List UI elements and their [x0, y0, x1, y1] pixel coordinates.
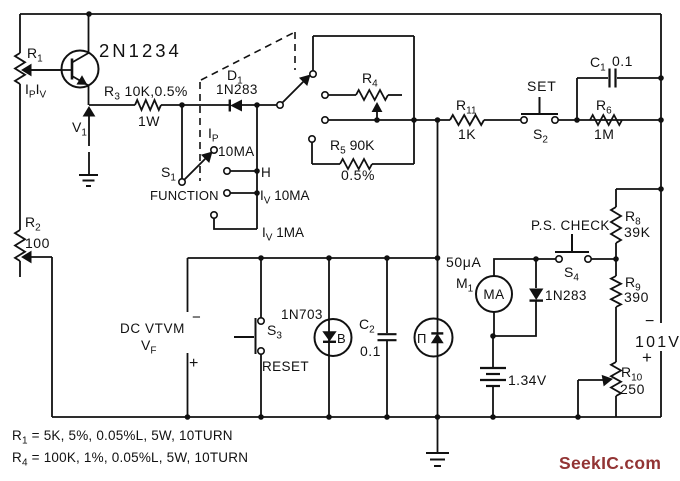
wire M1 top — [494, 259, 536, 276]
switch S3 blade — [234, 318, 256, 354]
svg-text:1N703: 1N703 — [281, 307, 323, 322]
wire C1 up — [576, 78, 578, 120]
junction R8 frame — [658, 186, 664, 192]
label Iv 10MA — [260, 188, 309, 207]
label R10 — [621, 364, 643, 384]
svg-text:+: + — [189, 355, 199, 372]
label Ip — [208, 125, 219, 145]
svg-text:IPIV: IPIV — [25, 81, 46, 101]
label R4 spec — [12, 450, 248, 469]
wire M1 bottom — [493, 312, 495, 336]
svg-text:IP: IP — [208, 125, 219, 145]
label R4 — [362, 70, 378, 90]
resistor R11 — [450, 115, 484, 125]
svg-text:C2: C2 — [359, 316, 375, 336]
wire R5 lead — [312, 163, 340, 165]
wire R2 wiper drop — [51, 257, 53, 417]
label R1 spec — [12, 428, 233, 447]
label H — [261, 165, 271, 180]
wire base — [23, 69, 72, 71]
wire C1 right — [617, 77, 661, 79]
svg-text:R1: R1 — [27, 45, 43, 65]
label R8 value — [624, 224, 651, 240]
svg-text:S3: S3 — [267, 322, 282, 342]
junction R4 wiper — [374, 117, 380, 123]
contact R5 — [309, 136, 315, 142]
junction R10 wiper — [575, 414, 581, 420]
label minus 101V — [645, 313, 655, 330]
contact S1 pivot — [179, 179, 185, 185]
svg-text:R5 90K: R5 90K — [330, 137, 375, 157]
label D1 — [227, 67, 243, 87]
wire R10 bottom — [615, 396, 617, 417]
label plus 101V — [642, 348, 652, 367]
svg-text:−: − — [192, 309, 201, 326]
resistor R6 — [590, 115, 622, 125]
wiper arrow R1 — [22, 65, 62, 76]
dashed gang link right — [294, 32, 296, 70]
capacitor C2 — [378, 334, 397, 340]
junction S4 left — [533, 256, 539, 262]
contact S4 left — [556, 256, 562, 262]
contact Iv1MA — [211, 212, 217, 218]
wire S3 drop — [260, 258, 262, 318]
contact R4 top — [322, 92, 328, 98]
label 101V — [635, 334, 680, 351]
wire D2 bottom — [493, 300, 536, 336]
svg-text:VF: VF — [141, 337, 156, 357]
junction C1 frame — [658, 75, 664, 81]
wire S1b up — [312, 36, 314, 71]
svg-text:R6: R6 — [596, 97, 612, 117]
label S4 — [564, 264, 579, 284]
wire S3 bottom — [260, 354, 262, 417]
transistor Q1 body — [62, 51, 99, 88]
svg-text:V1: V1 — [72, 119, 87, 139]
contact S1b throw — [310, 71, 316, 77]
resistor R4 — [356, 90, 388, 100]
wire ground main — [437, 417, 439, 452]
battery B1 — [480, 368, 506, 386]
label DC VTVM — [120, 321, 185, 336]
label C2 — [359, 316, 375, 336]
junction main vert — [435, 117, 441, 123]
junction S4 R9 — [613, 256, 619, 262]
label D1 part — [216, 82, 258, 97]
svg-text:R4: R4 — [362, 70, 378, 90]
svg-text:FUNCTION: FUNCTION — [150, 188, 219, 203]
label FUNCTION — [150, 188, 219, 203]
contact Ip 10MA — [211, 147, 217, 153]
junction H — [254, 168, 260, 174]
svg-text:R11: R11 — [456, 97, 477, 117]
contact H — [224, 168, 230, 174]
wire box top — [313, 35, 414, 37]
resistor R3 — [135, 100, 161, 110]
watermark SeekIC — [559, 453, 661, 473]
transistor Q1 base bar — [71, 59, 74, 80]
label R5 tol — [341, 167, 375, 183]
junction R3-S1 — [179, 102, 185, 108]
label C2 value — [360, 343, 381, 359]
svg-text:MA: MA — [483, 287, 504, 302]
svg-text:P.S. CHECK: P.S. CHECK — [531, 218, 610, 233]
svg-text:Π: Π — [417, 331, 427, 346]
svg-text:0.5%: 0.5% — [341, 167, 375, 183]
contact S2 right — [552, 117, 558, 123]
diode B — [323, 332, 336, 342]
resistor R1 — [15, 53, 25, 84]
svg-text:B: B — [337, 331, 346, 346]
wiper arrow R10 — [578, 376, 612, 386]
svg-text:IV 1MA: IV 1MA — [262, 225, 304, 244]
svg-text:−: − — [645, 313, 655, 330]
junction lower-main vert — [435, 255, 441, 261]
label R3 power — [138, 113, 160, 129]
label R1 — [27, 45, 43, 65]
resistor R5 — [340, 159, 372, 169]
wire C2 up — [386, 258, 388, 333]
label S1 — [161, 164, 176, 184]
junction main vert bottom — [435, 414, 441, 420]
wire R9-R10 — [615, 307, 617, 362]
resistor R2 — [15, 230, 25, 261]
wire contact Iv1MA — [214, 218, 257, 229]
junction D1-bus — [254, 102, 260, 108]
label 2N1234 — [99, 40, 182, 61]
diode B body — [315, 319, 352, 356]
svg-text:0.1: 0.1 — [612, 53, 633, 69]
wire R8 lead — [615, 189, 617, 207]
wire C1 left — [577, 77, 608, 79]
wire R5 right — [372, 163, 414, 165]
wire contact Iv10MA — [230, 192, 257, 194]
label M1 — [456, 275, 474, 295]
wire box right — [413, 36, 415, 164]
label P — [417, 331, 427, 346]
label 50uA — [446, 254, 481, 270]
wire left rail upper — [19, 14, 21, 53]
svg-text:H: H — [261, 165, 271, 180]
wire battery top — [492, 336, 494, 367]
label R6 value — [594, 126, 614, 142]
svg-text:SET: SET — [527, 78, 557, 94]
wire R5 down — [311, 142, 313, 164]
label R11 value — [458, 126, 476, 142]
wire contacts bus — [256, 105, 258, 229]
wire top bus — [20, 13, 661, 15]
contact main row — [322, 117, 328, 123]
svg-text:1M: 1M — [594, 126, 614, 142]
contact S3 top — [258, 318, 264, 324]
wire VTVM pos stub — [187, 353, 189, 417]
switch S4 bar — [555, 234, 589, 252]
svg-text:1N283: 1N283 — [545, 288, 587, 303]
wire D1 right — [242, 104, 277, 106]
arrow V1 — [84, 107, 95, 146]
wiper arrow R4 — [372, 103, 381, 120]
label B — [337, 331, 346, 346]
label R2 value — [25, 235, 50, 251]
contact S1b pivot — [277, 102, 283, 108]
label VF — [141, 337, 156, 357]
svg-text:390: 390 — [624, 289, 649, 305]
contact S4 right — [585, 256, 591, 262]
wire lower top bus — [188, 257, 438, 259]
label R3 value — [104, 83, 188, 103]
switch S2 bar — [521, 97, 558, 114]
switch arm S1b — [282, 75, 309, 102]
svg-text:+: + — [642, 348, 652, 367]
svg-text:IV 10MA: IV 10MA — [260, 188, 309, 207]
label VTVM plus — [189, 355, 199, 372]
wire R9 lead — [615, 259, 617, 276]
label S3 — [267, 322, 282, 342]
label R9 value — [624, 289, 649, 305]
svg-text:M1: M1 — [456, 275, 474, 295]
wire R4 stub — [388, 94, 402, 96]
junction VTVM bottom — [185, 414, 191, 420]
svg-text:1W: 1W — [138, 113, 160, 129]
wire R11-S2 — [484, 119, 521, 121]
junction collector top — [86, 11, 92, 17]
wire R3 left — [89, 104, 135, 106]
svg-text:10MA: 10MA — [218, 144, 254, 159]
label IN703 — [281, 307, 323, 322]
wire C2 down — [386, 341, 388, 417]
svg-text:R2: R2 — [25, 214, 41, 234]
junction C2 top — [384, 255, 390, 261]
wire B branch — [328, 258, 330, 417]
wire left rail stub — [19, 261, 21, 277]
wire R8 top — [616, 188, 661, 190]
svg-text:S1: S1 — [161, 164, 176, 184]
svg-text:39K: 39K — [624, 224, 651, 240]
wire collector — [88, 14, 90, 53]
junction S3 bus — [258, 414, 264, 420]
svg-text:RESET: RESET — [262, 359, 309, 374]
wire main row — [328, 119, 450, 121]
label IpIv — [25, 81, 46, 101]
diode D2 — [530, 289, 544, 301]
wire right frame upper — [660, 14, 662, 323]
junction B bottom — [326, 414, 332, 420]
wire R8 bottom — [615, 243, 617, 259]
diode P body — [415, 319, 453, 357]
wire ground stub — [88, 152, 90, 174]
svg-text:S2: S2 — [533, 126, 548, 146]
wire VTVM neg stub — [187, 258, 189, 312]
contact S2 left — [521, 117, 527, 123]
wire main vert — [437, 120, 439, 417]
diode D1 — [230, 100, 242, 112]
resistor R8 — [611, 207, 621, 243]
diode P — [431, 333, 443, 342]
svg-text:S4: S4 — [564, 264, 579, 284]
junction Iv10MA — [254, 190, 260, 196]
label battery — [508, 372, 547, 388]
wire S4 right — [591, 258, 616, 260]
label V1 — [72, 119, 87, 139]
svg-text:250: 250 — [620, 381, 645, 397]
ground GND2 — [426, 453, 449, 466]
dashed gang link diagonal — [201, 32, 295, 80]
transistor Q1 collector — [72, 53, 89, 63]
label Iv 1MA — [262, 225, 304, 244]
wire D2 top — [535, 259, 537, 288]
ground GND1 — [79, 175, 98, 186]
label PS CHECK — [531, 218, 610, 233]
resistor R10 — [611, 362, 621, 396]
junction C2 bottom — [384, 414, 390, 420]
svg-text:50μA: 50μA — [446, 254, 481, 270]
svg-text:2N1234: 2N1234 — [99, 40, 182, 61]
label S2 — [533, 126, 548, 146]
svg-text:DC VTVM: DC VTVM — [120, 321, 185, 336]
junction C1 branch — [574, 117, 580, 123]
wire left rail middle — [19, 84, 21, 230]
label R9 — [625, 274, 641, 294]
label C1 value — [612, 53, 633, 69]
svg-text:1N283: 1N283 — [216, 82, 258, 97]
junction R6 right — [658, 117, 664, 123]
wire contact H — [230, 170, 257, 172]
wire battery bottom — [492, 386, 494, 417]
label VTVM minus — [192, 309, 201, 326]
label SET — [527, 78, 557, 94]
svg-text:1.34V: 1.34V — [508, 372, 547, 388]
contact S3 bottom — [258, 348, 264, 354]
svg-text:1K: 1K — [458, 126, 476, 142]
junction S3 top — [258, 255, 264, 261]
wire right frame lower — [660, 351, 662, 417]
svg-text:0.1: 0.1 — [360, 343, 381, 359]
dashed gang link left — [199, 82, 201, 181]
label C1 — [590, 54, 606, 74]
svg-text:SeekIC.com: SeekIC.com — [559, 453, 661, 473]
label 10MA — [218, 144, 254, 159]
svg-text:100: 100 — [25, 235, 50, 251]
junction B top — [326, 255, 332, 261]
svg-text:R4 = 100K, 1%, 0.05%L, 5W, 10T: R4 = 100K, 1%, 0.05%L, 5W, 10TURN — [12, 450, 248, 469]
junction battery bus — [490, 414, 496, 420]
wire S1 drop — [181, 105, 183, 179]
junction battery top — [490, 333, 496, 339]
wire R3 right — [161, 104, 230, 106]
label R8 — [625, 208, 641, 228]
label MA — [483, 287, 504, 302]
svg-text:R1 = 5K, 5%, 0.05%L, 5W, 10TUR: R1 = 5K, 5%, 0.05%L, 5W, 10TURN — [12, 428, 233, 447]
meter M1 body — [476, 276, 512, 312]
wire bottom bus — [52, 416, 661, 418]
wire S4 left — [536, 258, 556, 260]
label D2 part — [545, 288, 587, 303]
wire emitter — [88, 85, 90, 105]
wire R4 lead — [328, 94, 356, 96]
label R6 — [596, 97, 612, 117]
switch arm S1 — [184, 152, 211, 179]
transistor Q1 emitter — [72, 76, 89, 86]
contact Iv10MA — [224, 190, 230, 196]
label RESET — [262, 359, 309, 374]
label R5 value — [330, 137, 375, 157]
wire R10 wiper drop — [577, 380, 579, 417]
junction box right — [411, 117, 417, 123]
capacitor C1 — [610, 69, 616, 88]
svg-text:C1: C1 — [590, 54, 606, 74]
wire S2 right — [558, 119, 661, 121]
resistor R9 — [611, 276, 621, 307]
label R2 — [25, 214, 41, 234]
label R11 — [456, 97, 477, 117]
wiper arrow R2 — [22, 252, 52, 263]
label R10 value — [620, 381, 645, 397]
